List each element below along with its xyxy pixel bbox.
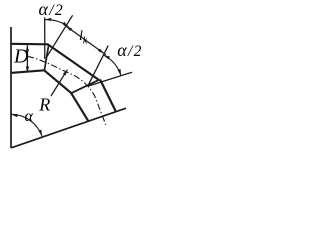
- svg-text:α/2: α/2: [117, 40, 142, 60]
- gore bottom edge: [44, 70, 71, 93]
- segment1 bottom edge: [11, 70, 45, 73]
- joint2 extension upper: [88, 46, 109, 87]
- svg-text:α: α: [25, 108, 34, 125]
- R arrow: [51, 70, 67, 96]
- joint1 extension vertical: [44, 17, 46, 59]
- segment3 left edge: [71, 93, 88, 121]
- joint2 extension lower: [88, 72, 132, 86]
- lk dimension line: [64, 25, 106, 55]
- svg-text:α/2: α/2: [39, 0, 64, 19]
- joint1 extension slanted: [46, 15, 72, 58]
- inlet face line: [10, 27, 12, 148]
- centerline: [28, 56, 106, 125]
- alpha/2 arc joint2: [103, 55, 121, 76]
- alpha/2 arc joint1: [45, 20, 69, 27]
- segment3 right edge: [100, 79, 116, 111]
- gore top edge: [48, 44, 99, 80]
- alpha arc: [11, 114, 42, 136]
- svg-text:R: R: [38, 95, 50, 115]
- svg-text:D: D: [13, 46, 29, 68]
- weld2: [71, 80, 99, 94]
- weld1: [44, 44, 48, 70]
- D dimension line: [26, 45, 28, 72]
- outlet face line: [11, 108, 126, 148]
- segment1 top edge: [11, 43, 49, 46]
- svg-text:lk: lk: [79, 29, 88, 47]
